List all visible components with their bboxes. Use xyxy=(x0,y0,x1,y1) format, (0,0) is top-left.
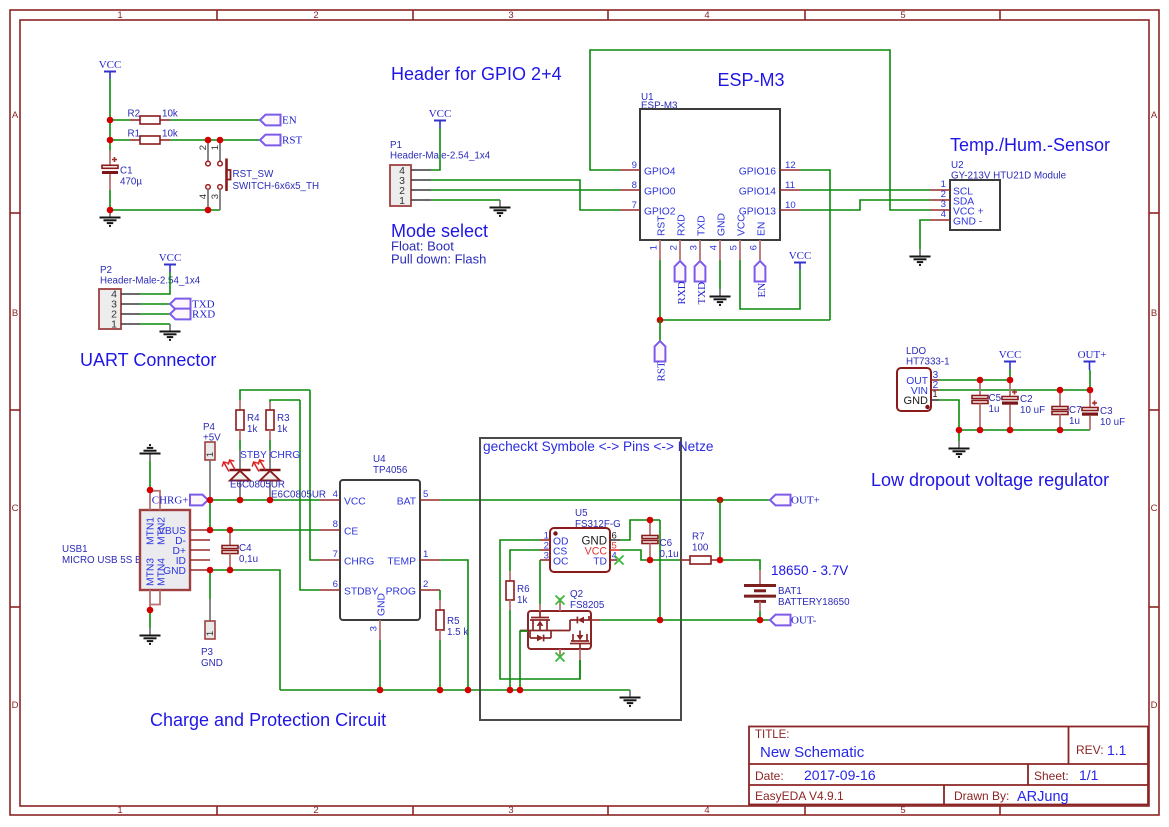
svg-text:R7: R7 xyxy=(692,532,705,543)
svg-text:VCC: VCC xyxy=(99,59,122,71)
svg-text:EN: EN xyxy=(282,114,297,126)
junction node C1/ground row xyxy=(107,207,114,214)
net flag RXD (ESP) xyxy=(675,261,688,305)
svg-text:5: 5 xyxy=(423,489,428,500)
svg-text:U2: U2 xyxy=(951,160,964,171)
junction node GND stub/P3 xyxy=(207,567,214,574)
svg-text:2: 2 xyxy=(423,579,428,590)
svg-text:VCC: VCC xyxy=(737,214,748,236)
wire CHRG column to STDBY pin xyxy=(300,400,320,590)
wire GND pin to ground xyxy=(719,260,721,289)
svg-text:1/1: 1/1 xyxy=(1079,767,1099,783)
svg-text:100: 100 xyxy=(692,543,709,554)
wire OUT+ drop xyxy=(1089,370,1091,390)
junction node battery/OUT- xyxy=(757,617,764,624)
svg-text:9: 9 xyxy=(632,160,637,171)
svg-text:1.1: 1.1 xyxy=(1107,742,1127,758)
wire Q2 gate1 to bus xyxy=(520,631,528,690)
svg-text:BAT: BAT xyxy=(397,497,417,508)
wire battery to OUT- row xyxy=(759,611,761,620)
wire STBY column to CHRG pin xyxy=(310,390,320,560)
junction node C5 bottom xyxy=(977,427,984,434)
svg-text:C3: C3 xyxy=(1100,406,1113,417)
ground (LDO) xyxy=(949,430,970,457)
battery BAT1 BATTERY18650 xyxy=(744,570,850,611)
capacitor C2 10uF xyxy=(1002,380,1045,430)
svg-text:P4: P4 xyxy=(203,422,216,433)
wire U5 VCC jog to R7 row xyxy=(620,550,680,560)
svg-text:MTN1: MTN1 xyxy=(146,517,157,545)
svg-text:C2: C2 xyxy=(1020,394,1033,405)
svg-text:10k: 10k xyxy=(162,109,178,120)
power flag VCC (P1) xyxy=(429,108,452,128)
connector USB1 MICRO USB 5S B xyxy=(62,490,210,610)
capacitor C3 10uF xyxy=(1082,390,1125,430)
wire GPIO4 loop to sensor VCC+ xyxy=(590,50,930,210)
power flag VCC (LDO) xyxy=(999,349,1022,369)
svg-text:1: 1 xyxy=(399,195,405,207)
power flag VCC (ESP) xyxy=(789,250,812,270)
wire CS to R6 xyxy=(510,550,540,571)
svg-text:RST: RST xyxy=(656,361,668,381)
svg-text:CHRG: CHRG xyxy=(344,557,374,568)
svg-text:1.5 k: 1.5 k xyxy=(447,627,468,638)
junction node C5 top xyxy=(977,377,984,384)
wire P1 pin2 to GPIO0 xyxy=(431,189,620,191)
svg-text:C: C xyxy=(1151,503,1158,514)
svg-text:Charge and Protection Circuit: Charge and Protection Circuit xyxy=(150,710,386,730)
junction node VCC/R2 xyxy=(107,117,114,124)
svg-text:Header for GPIO 2+4: Header for GPIO 2+4 xyxy=(391,64,562,84)
wire LDO ground rail xyxy=(959,429,1090,431)
svg-text:EasyEDA V4.9.1: EasyEDA V4.9.1 xyxy=(755,789,844,803)
resistor R5 1.5k xyxy=(436,600,468,640)
svg-text:1: 1 xyxy=(111,319,117,331)
svg-text:GND: GND xyxy=(904,395,929,407)
svg-text:Drawn By:: Drawn By: xyxy=(954,789,1009,803)
power flag VCC (P2) xyxy=(159,252,182,272)
wire R6 to bus xyxy=(509,610,511,690)
svg-text:5: 5 xyxy=(729,245,740,250)
resistor R2 xyxy=(128,109,178,125)
LED STBY E6C0805UR xyxy=(222,450,267,500)
wire P1 pin3 to GPIO2 xyxy=(431,180,620,210)
svg-text:C7: C7 xyxy=(1069,405,1082,416)
svg-text:GPIO4: GPIO4 xyxy=(644,167,676,178)
svg-text:R5: R5 xyxy=(447,616,460,627)
wire R2 left xyxy=(110,119,130,121)
junction node C4 bottom xyxy=(227,567,234,574)
junction node C6 top xyxy=(647,517,654,524)
svg-text:U5: U5 xyxy=(575,508,588,519)
wire VCC drop xyxy=(1009,369,1011,380)
svg-text:5: 5 xyxy=(900,10,905,21)
svg-text:D: D xyxy=(12,700,19,711)
junction node RST/switch pin1 xyxy=(217,137,224,144)
svg-text:1: 1 xyxy=(210,145,221,150)
junction node STBY LED xyxy=(237,497,244,504)
svg-text:1: 1 xyxy=(649,245,660,250)
svg-text:OC: OC xyxy=(553,557,569,568)
svg-text:12: 12 xyxy=(785,160,796,171)
svg-text:3: 3 xyxy=(508,10,513,21)
svg-text:GPIO16: GPIO16 xyxy=(739,167,776,178)
IC U1 ESP-M3 xyxy=(620,92,800,260)
svg-text:New Schematic: New Schematic xyxy=(760,744,865,761)
svg-text:EN: EN xyxy=(757,222,768,236)
svg-text:10 uF: 10 uF xyxy=(1020,405,1045,416)
wire Q2 source to OD link xyxy=(579,660,581,679)
junction node Q2 gate/bus xyxy=(517,687,524,694)
junction node R6/bus xyxy=(507,687,514,694)
wire ground bus xyxy=(280,689,630,691)
junction node VBUS stub xyxy=(207,527,214,534)
connector P2 Header-Male-2.54_1x4 xyxy=(99,265,201,331)
svg-text:Pull down: Flash: Pull down: Flash xyxy=(391,252,486,267)
svg-text:OUT-: OUT- xyxy=(791,614,817,626)
svg-text:4: 4 xyxy=(704,805,709,816)
svg-text:1: 1 xyxy=(205,452,216,457)
net flag EN xyxy=(260,114,297,126)
junction node U4 GND/bus xyxy=(377,687,384,694)
pin P3 GND xyxy=(201,570,223,669)
wire CHRG+ to VBUS xyxy=(209,500,211,530)
wire RST row xyxy=(660,319,830,321)
svg-text:GND: GND xyxy=(377,593,388,616)
wire R2 to EN xyxy=(170,119,260,121)
svg-text:5: 5 xyxy=(900,805,905,816)
svg-text:PROG: PROG xyxy=(386,587,416,598)
svg-text:6: 6 xyxy=(333,579,338,590)
svg-text:ARJung: ARJung xyxy=(1017,789,1069,805)
svg-text:EN: EN xyxy=(756,283,768,298)
svg-text:GPIO14: GPIO14 xyxy=(739,187,776,198)
capacitor C6 0,1u xyxy=(642,520,679,560)
ground (USB bottom) xyxy=(140,628,161,644)
svg-text:4: 4 xyxy=(709,244,720,250)
svg-text:GND: GND xyxy=(717,213,728,236)
svg-text:R4: R4 xyxy=(247,413,260,424)
capacitor C7 1u xyxy=(1052,390,1082,430)
verification box (gecheckt) xyxy=(480,438,714,720)
net flag TXD xyxy=(170,298,215,310)
svg-text:4: 4 xyxy=(704,10,709,21)
svg-text:R2: R2 xyxy=(128,109,141,120)
svg-text:11: 11 xyxy=(785,180,795,191)
svg-text:B: B xyxy=(12,308,18,319)
svg-text:3: 3 xyxy=(508,805,513,816)
junction node C7 top xyxy=(1057,387,1064,394)
wire R4 top rail xyxy=(240,390,310,400)
wire U4 GND to bus xyxy=(379,640,381,690)
wire P2 pin2 xyxy=(140,313,170,315)
svg-text:REV:: REV: xyxy=(1076,743,1104,757)
svg-text:P3: P3 xyxy=(201,647,214,658)
svg-text:Q2: Q2 xyxy=(570,589,583,600)
svg-text:3: 3 xyxy=(210,194,221,199)
wire GND to rail xyxy=(939,400,959,430)
junction node R7/riser xyxy=(717,557,724,564)
svg-text:Header-Male-2.54_1x4: Header-Male-2.54_1x4 xyxy=(100,276,201,287)
svg-text:RST: RST xyxy=(282,134,302,146)
junction node C2/VCC xyxy=(1007,377,1014,384)
ground (C1 / switch) xyxy=(100,210,121,226)
svg-text:TXD: TXD xyxy=(697,215,708,236)
svg-text:UART Connector: UART Connector xyxy=(80,350,216,370)
svg-text:D: D xyxy=(1151,700,1158,711)
svg-text:GND: GND xyxy=(163,566,186,577)
svg-text:0,1u: 0,1u xyxy=(239,554,258,565)
svg-text:10k: 10k xyxy=(162,129,178,140)
junction node U5gnd/OUT- xyxy=(657,617,664,624)
svg-text:VCC: VCC xyxy=(789,250,812,262)
svg-text:CHRG: CHRG xyxy=(270,450,300,461)
wire CHRG+ / LED row to U4 VCC xyxy=(208,499,320,501)
svg-text:TITLE:: TITLE: xyxy=(755,729,790,741)
net flag TXD (ESP) xyxy=(695,261,708,305)
net flag CHRG+ xyxy=(152,494,208,506)
svg-text:C1: C1 xyxy=(120,166,133,177)
wire U5 GND jog to OUT- riser xyxy=(620,520,660,540)
junction node TEMP/bus xyxy=(465,687,472,694)
svg-text:C4: C4 xyxy=(239,543,252,554)
svg-text:2017-09-16: 2017-09-16 xyxy=(804,767,876,783)
wire TEMP down to bus xyxy=(440,560,468,690)
svg-text:4: 4 xyxy=(333,489,339,500)
wire GND row xyxy=(210,570,280,690)
junction node VCC/R1 xyxy=(107,137,114,144)
title block xyxy=(749,727,1148,805)
svg-text:gecheckt Symbole <-> Pins <->: gecheckt Symbole <-> Pins <-> Netze xyxy=(483,439,714,454)
wire VBUS row to U4 CE xyxy=(210,529,320,531)
wire P1 pin1 to ground xyxy=(431,199,500,201)
svg-text:STDBY: STDBY xyxy=(344,587,378,598)
wire OUT row xyxy=(939,379,1010,381)
svg-text:BAT1: BAT1 xyxy=(778,586,802,597)
junction node MTN3/MTN4 xyxy=(147,607,154,614)
wire P2 pin4 to VCC xyxy=(140,272,170,294)
wire VCC pin to VCC flag xyxy=(740,260,800,309)
wire OUT+ riser to R7 xyxy=(719,500,721,560)
wire R5 to bus xyxy=(439,640,441,690)
svg-text:2: 2 xyxy=(313,805,318,816)
junction node C6 bottom xyxy=(647,557,654,564)
wire P2 pin1 to ground xyxy=(140,323,170,325)
svg-text:C5: C5 xyxy=(989,393,1002,404)
svg-text:1: 1 xyxy=(205,631,216,636)
net flag OUT- xyxy=(770,614,817,626)
svg-text:RST: RST xyxy=(657,215,668,236)
svg-text:1u: 1u xyxy=(1069,416,1080,427)
svg-text:8: 8 xyxy=(333,519,338,530)
junction node MTN1/MTN2 xyxy=(147,487,154,494)
svg-text:P2: P2 xyxy=(100,265,112,276)
net flag OUT+ xyxy=(770,494,820,506)
net flag RST (ESP) xyxy=(655,320,668,382)
wire BAT to OUT+ xyxy=(440,499,770,501)
svg-text:U4: U4 xyxy=(373,454,386,465)
svg-text:Date:: Date: xyxy=(755,769,784,783)
svg-text:CHRG+: CHRG+ xyxy=(152,494,189,506)
svg-text:TD: TD xyxy=(593,557,607,568)
IC U5 FS312F-G xyxy=(540,508,621,572)
svg-text:C6: C6 xyxy=(660,538,673,549)
wire OUT- row xyxy=(600,619,770,621)
module U2 GY-213V HTU21D xyxy=(930,160,1067,230)
wire R1 to RST flag xyxy=(170,139,260,141)
no-connect X Q2 bottom xyxy=(556,653,565,662)
resistor R3 1k xyxy=(266,402,290,450)
svg-text:R6: R6 xyxy=(517,584,530,595)
resistor R6 1k xyxy=(506,571,530,610)
svg-text:E6C0805UR: E6C0805UR xyxy=(271,490,326,501)
svg-text:C: C xyxy=(12,503,19,514)
power flag VCC (RST section) xyxy=(99,59,122,79)
junction node switch pin4/ground row xyxy=(205,207,212,214)
svg-text:470µ: 470µ xyxy=(120,177,142,188)
junction node LDO gnd xyxy=(956,427,963,434)
svg-text:2: 2 xyxy=(313,10,318,21)
svg-text:10 uF: 10 uF xyxy=(1100,417,1125,428)
transistor Q2 FS8205 xyxy=(520,589,605,660)
svg-text:1k: 1k xyxy=(277,424,287,435)
wire P2 pin3 xyxy=(140,303,170,305)
svg-text:1u: 1u xyxy=(989,404,1000,415)
ground (bus) xyxy=(620,690,641,706)
svg-text:GPIO0: GPIO0 xyxy=(644,187,676,198)
svg-text:VCC: VCC xyxy=(429,108,452,120)
svg-text:4: 4 xyxy=(198,194,209,199)
ground (P1) xyxy=(490,200,511,216)
svg-text:3: 3 xyxy=(369,626,380,631)
wire PROG to R5 xyxy=(439,590,441,600)
ground (USB top, flipped) xyxy=(140,445,161,461)
junction node C2 bottom xyxy=(1007,427,1014,434)
wire C1 bottom to ground row xyxy=(110,190,220,210)
ground (sensor) xyxy=(910,249,931,265)
resistor R4 1k xyxy=(236,400,260,450)
svg-text:VCC: VCC xyxy=(999,349,1022,361)
svg-text:HT7333-1: HT7333-1 xyxy=(906,357,950,368)
wire MTN top to ground xyxy=(149,461,151,490)
svg-text:R1: R1 xyxy=(128,129,141,140)
wire GND- to ground xyxy=(920,220,930,249)
capacitor C1 470u xyxy=(102,151,142,191)
wire VIN row xyxy=(939,389,1090,391)
svg-text:USB1: USB1 xyxy=(62,544,88,555)
junction node C7 bottom xyxy=(1057,427,1064,434)
svg-text:4: 4 xyxy=(941,209,947,220)
net flag EN (ESP) xyxy=(755,261,768,298)
junction node C3/OUT+ xyxy=(1087,387,1094,394)
svg-text:SWITCH-6x6x5_TH: SWITCH-6x6x5_TH xyxy=(233,181,320,192)
svg-text:6: 6 xyxy=(749,245,760,250)
svg-text:STBY: STBY xyxy=(240,450,267,461)
wire OD net xyxy=(500,540,580,679)
net flag RXD xyxy=(170,308,215,320)
junction node BAT/OUT+ riser xyxy=(717,497,724,504)
svg-text:P1: P1 xyxy=(390,140,402,151)
wire R7 to battery xyxy=(720,560,760,570)
svg-text:1k: 1k xyxy=(247,424,257,435)
junction node RST/switch pin2 xyxy=(205,137,212,144)
svg-text:3: 3 xyxy=(689,245,700,250)
svg-text:1: 1 xyxy=(423,549,428,560)
wire OC to Q2 gate xyxy=(539,560,541,604)
svg-text:OUT+: OUT+ xyxy=(1078,349,1107,361)
wire VCC rail down to C1 xyxy=(109,79,111,151)
svg-text:1: 1 xyxy=(117,805,122,816)
junction node C4 top xyxy=(227,527,234,534)
junction node CHRG+/P4 xyxy=(207,497,214,504)
svg-text:TP4056: TP4056 xyxy=(373,465,408,476)
svg-text:Low dropout voltage regulator: Low dropout voltage regulator xyxy=(871,470,1109,490)
no-connect X on TD xyxy=(615,556,624,565)
svg-text:18650 - 3.7V: 18650 - 3.7V xyxy=(771,563,848,578)
wire GPIO16 to RST net xyxy=(800,170,830,320)
svg-text:A: A xyxy=(1151,110,1158,121)
LED CHRG E6C0805UR xyxy=(252,450,300,500)
wire R3 top rail xyxy=(270,400,300,402)
svg-text:VCC: VCC xyxy=(344,497,366,508)
svg-text:RST_SW: RST_SW xyxy=(233,169,275,180)
wire MTN bottom to ground xyxy=(149,610,151,628)
svg-text:7: 7 xyxy=(333,549,338,560)
wire GPIO14 to SCL xyxy=(800,189,930,191)
wire RST pin down xyxy=(659,260,661,320)
pin P4 +5V xyxy=(203,422,221,497)
wire P1 pin4 to VCC xyxy=(431,128,440,170)
junction node CHRG LED xyxy=(267,497,274,504)
svg-text:MICRO USB 5S B: MICRO USB 5S B xyxy=(62,555,142,566)
svg-text:TXD: TXD xyxy=(696,282,708,305)
svg-text:GND -: GND - xyxy=(953,217,982,228)
regulator LDO HT7333-1 xyxy=(897,346,950,411)
svg-text:R3: R3 xyxy=(277,413,290,424)
capacitor C4 0,1u xyxy=(222,530,258,570)
switch RST_SW SWITCH-6x6x5_TH xyxy=(198,140,319,210)
svg-text:2: 2 xyxy=(198,145,209,150)
wire P4 to CHRG+ row xyxy=(209,497,211,500)
IC U4 TP4056 xyxy=(320,454,440,640)
svg-text:GND: GND xyxy=(201,658,223,669)
ground (ESP GND) xyxy=(710,289,731,305)
svg-text:RXD: RXD xyxy=(676,281,688,304)
svg-text:8: 8 xyxy=(632,180,637,191)
svg-text:10: 10 xyxy=(785,200,796,211)
wire OUT- riser xyxy=(659,520,661,620)
svg-text:0,1u: 0,1u xyxy=(660,549,679,560)
no-connect X Q2 top xyxy=(556,596,565,605)
svg-text:OUT+: OUT+ xyxy=(791,494,820,506)
svg-text:Sheet:: Sheet: xyxy=(1034,769,1069,783)
svg-text:1k: 1k xyxy=(517,595,527,606)
svg-text:CE: CE xyxy=(344,527,358,538)
connector P1 Header-Male-2.54_1x4 xyxy=(390,140,491,207)
svg-text:1: 1 xyxy=(117,10,122,21)
svg-text:TEMP: TEMP xyxy=(387,557,416,568)
svg-text:FS8205: FS8205 xyxy=(570,600,605,611)
svg-text:RXD: RXD xyxy=(192,308,215,320)
wire GPIO13 to SDA xyxy=(800,200,930,210)
svg-text:7: 7 xyxy=(632,200,637,211)
resistor R1 xyxy=(128,129,178,145)
ground (P2) xyxy=(160,324,181,340)
svg-text:2: 2 xyxy=(669,245,680,250)
net flag RST xyxy=(260,134,302,146)
power flag OUT+ (LDO) xyxy=(1078,349,1107,370)
svg-text:VCC: VCC xyxy=(159,252,182,264)
